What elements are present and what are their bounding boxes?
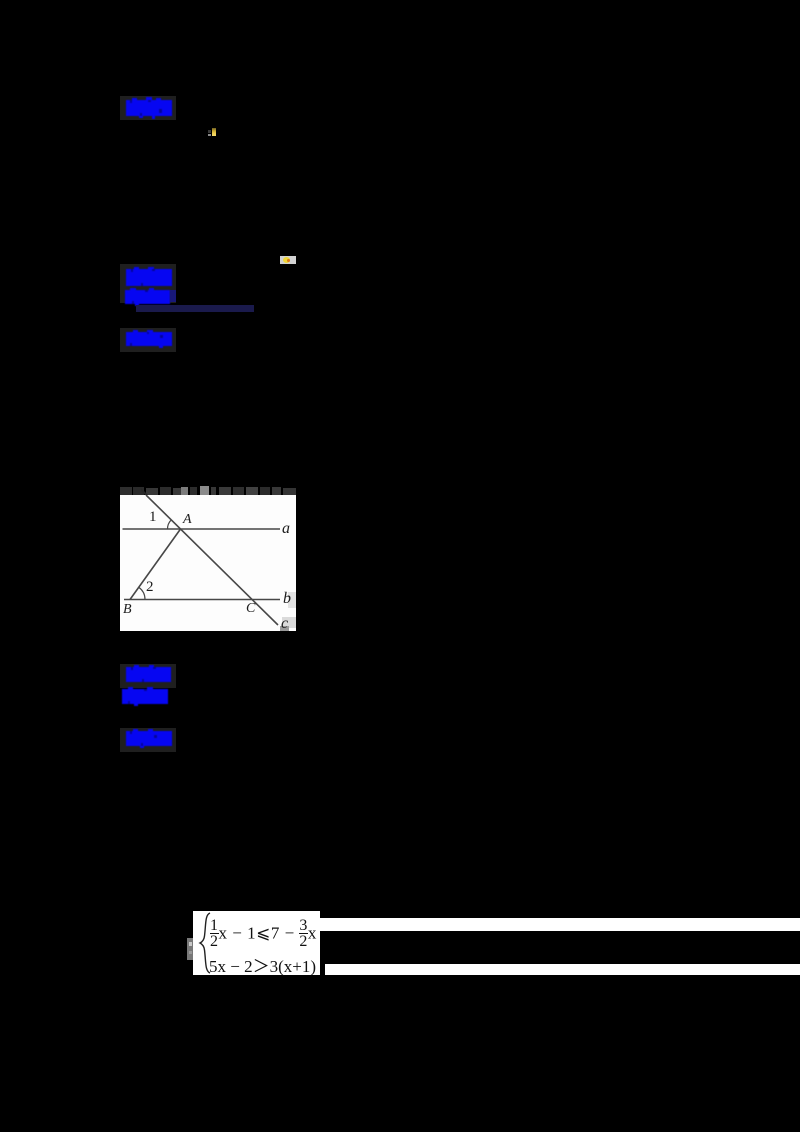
svg-text:c: c <box>281 615 288 631</box>
svg-text:C: C <box>246 601 256 616</box>
svg-text:A: A <box>182 512 192 527</box>
svg-text:1: 1 <box>149 509 157 525</box>
svg-text:B: B <box>123 602 132 617</box>
svg-text:b: b <box>283 590 291 607</box>
svg-text:a: a <box>282 520 290 537</box>
svg-text:2: 2 <box>146 579 154 595</box>
